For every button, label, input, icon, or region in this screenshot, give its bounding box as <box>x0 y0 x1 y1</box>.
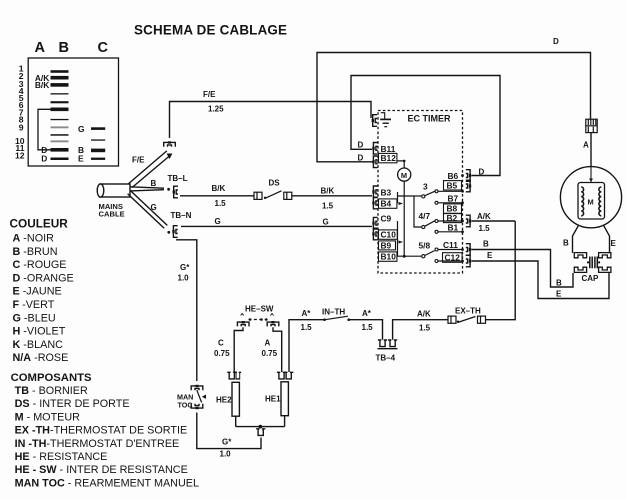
svg-text:N/A -ROSE: N/A -ROSE <box>13 352 69 364</box>
svg-text:1.5: 1.5 <box>301 323 313 332</box>
svg-text:G: G <box>151 203 157 212</box>
svg-text:B: B <box>556 278 562 287</box>
row numbers 1-12 <box>15 64 25 161</box>
svg-text:G*: G* <box>222 438 232 447</box>
svg-text:CAP: CAP <box>582 274 600 283</box>
svg-text:1.0: 1.0 <box>178 274 190 283</box>
svg-text:C12: C12 <box>445 253 461 263</box>
svg-text:A: A <box>265 339 271 348</box>
terminal B11 <box>372 143 377 155</box>
wire A/K from B2 <box>472 220 516 222</box>
svg-text:1.5: 1.5 <box>215 199 227 208</box>
EC timer box <box>378 111 463 274</box>
svg-text:M: M <box>588 198 594 207</box>
svg-text:3: 3 <box>423 182 428 192</box>
switch 5/8 <box>422 255 425 258</box>
mains cable body <box>100 184 130 197</box>
svg-text:B/K: B/K <box>35 80 49 90</box>
contact C11 <box>435 248 438 251</box>
capacitor connector right <box>599 253 611 273</box>
svg-text:TOC: TOC <box>178 400 193 409</box>
svg-text:B2: B2 <box>447 213 458 223</box>
wire B/K 1.5 left segment <box>180 195 254 197</box>
motor M <box>560 167 621 228</box>
svg-text:HE–SW: HE–SW <box>245 305 274 314</box>
svg-text:K -BLANC: K -BLANC <box>13 339 64 351</box>
svg-text:E: E <box>487 251 493 260</box>
svg-text:D: D <box>358 141 364 150</box>
capacitor connector left <box>574 253 586 273</box>
svg-text:B6: B6 <box>448 171 459 181</box>
svg-text:E: E <box>556 289 562 298</box>
svg-text:B/K: B/K <box>212 184 226 193</box>
wire B4 to switches <box>398 196 422 227</box>
svg-text:5/8: 5/8 <box>419 240 431 250</box>
svg-text:EX -TH-THERMOSTAT DE SORTIE: EX -TH-THERMOSTAT DE SORTIE <box>15 425 188 437</box>
wire D from B11 loop to B6 <box>351 76 500 176</box>
connector HE1 top (two prongs) <box>277 372 286 379</box>
svg-text:1.5: 1.5 <box>322 202 334 211</box>
terminal B5 <box>466 180 471 192</box>
svg-text:M: M <box>401 171 407 180</box>
svg-text:E: E <box>78 154 84 164</box>
svg-text:G: G <box>215 217 221 226</box>
svg-text:E -JAUNE: E -JAUNE <box>13 286 62 298</box>
svg-text:B4: B4 <box>381 199 392 209</box>
svg-text:B/K: B/K <box>321 187 335 196</box>
svg-text:SCHEMA DE CABLAGE: SCHEMA DE CABLAGE <box>134 23 287 38</box>
wire B/K 1.5 right segment <box>292 195 372 197</box>
wire timer motor down to B10 row <box>403 181 405 256</box>
motor winding left <box>581 187 583 216</box>
motor plug connector <box>586 119 597 132</box>
svg-text:1.25: 1.25 <box>208 105 224 114</box>
wire F/E double-line from mains <box>129 151 170 188</box>
svg-text:A -NOIR: A -NOIR <box>13 233 55 245</box>
svg-text:F/E: F/E <box>132 156 145 165</box>
node dot at TB-L <box>167 188 170 191</box>
svg-text:B: B <box>563 239 569 248</box>
connector HE2 top <box>227 372 236 379</box>
motor leg B <box>573 225 579 253</box>
svg-text:TB - BORNIER: TB - BORNIER <box>15 385 88 397</box>
svg-text:4/7: 4/7 <box>419 211 431 221</box>
svg-text:COMPOSANTS: COMPOSANTS <box>11 372 92 384</box>
svg-text:0.75: 0.75 <box>214 349 230 358</box>
svg-text:HE2: HE2 <box>216 396 232 405</box>
wire B from C11 to capacitor <box>472 250 574 288</box>
node dot at TB-N <box>167 231 170 234</box>
svg-text:DS: DS <box>269 179 281 188</box>
svg-text:D: D <box>358 154 364 163</box>
wire G* down from TB-N <box>176 240 197 381</box>
svg-text:A: A <box>583 141 589 150</box>
terminal B2 <box>466 215 471 227</box>
terminal C10 <box>372 228 377 240</box>
svg-text:HE - RESISTANCE: HE - RESISTANCE <box>15 451 108 463</box>
terminal B4 <box>372 197 377 209</box>
svg-text:A: A <box>35 40 46 56</box>
svg-text:A*: A* <box>362 309 372 318</box>
connector timer F/E input <box>372 115 377 127</box>
capacitor CAP plates <box>590 257 598 269</box>
bus bar C9-B10 <box>397 221 399 256</box>
svg-text:B: B <box>483 240 489 249</box>
svg-text:COULEUR: COULEUR <box>10 217 69 231</box>
svg-text:DS - INTER DE PORTE: DS - INTER DE PORTE <box>15 398 130 410</box>
resistor HE2 <box>235 416 237 426</box>
svg-text:G: G <box>323 218 329 227</box>
svg-text:C11: C11 <box>443 240 458 250</box>
wire C branch from HE-SW to HE2 <box>234 327 243 372</box>
bar labels A/K B/K D D <box>35 73 49 163</box>
wire plug to motor <box>590 133 592 167</box>
svg-text:B12: B12 <box>381 153 397 163</box>
wire F/E riser and 1.25 run <box>170 102 372 139</box>
wire HE bottom rail <box>236 426 285 428</box>
svg-text:TB–N: TB–N <box>171 211 192 220</box>
wire A branch from HE-SW to HE1 <box>273 327 282 372</box>
switch 3 <box>422 195 425 198</box>
svg-text:1.5: 1.5 <box>479 224 491 233</box>
connector F/E <box>164 141 176 146</box>
timer motor M <box>398 168 411 181</box>
svg-text:C: C <box>98 40 109 56</box>
bus bar B3-B4 <box>397 192 399 203</box>
wire A* riser from HE1 <box>289 320 324 372</box>
connector TB-L <box>173 186 178 198</box>
node junction HE1/HE2 <box>258 425 262 429</box>
svg-text:B3: B3 <box>381 187 392 197</box>
terminal B9 <box>379 241 396 250</box>
svg-text:EX–TH: EX–TH <box>455 307 481 316</box>
ground <box>380 113 391 127</box>
motor leg E <box>604 225 610 253</box>
contact B2 <box>435 220 438 223</box>
connector TB-N <box>172 226 177 238</box>
svg-text:EC TIMER: EC TIMER <box>408 114 452 124</box>
wire EX-TH up to B2 (A/K net) <box>486 221 515 320</box>
svg-text:B: B <box>151 179 157 188</box>
svg-text:B5: B5 <box>447 180 458 190</box>
terminal B8 <box>444 204 462 213</box>
wire D from B12 loop to motor plug <box>317 53 591 162</box>
svg-text:9: 9 <box>19 122 24 132</box>
svg-text:HE - SW - INTER DE RESISTANCE: HE - SW - INTER DE RESISTANCE <box>15 464 188 476</box>
wire G run to timer <box>181 225 372 227</box>
connector below HE junction <box>256 429 265 436</box>
wire B12 to timer motor <box>397 161 404 168</box>
terminal block TB-4 <box>378 340 387 347</box>
svg-text:A/K: A/K <box>417 310 431 319</box>
svg-text:F/E: F/E <box>203 90 216 99</box>
terminal B3 <box>372 186 377 198</box>
svg-text:A/K: A/K <box>477 212 491 221</box>
contact B5 <box>435 190 438 193</box>
contact B1 <box>435 230 438 233</box>
svg-text:B1: B1 <box>448 223 459 233</box>
svg-text:G: G <box>78 124 85 134</box>
svg-text:CABLE: CABLE <box>99 209 125 218</box>
svg-text:E: E <box>611 239 617 248</box>
svg-text:C: C <box>218 339 224 348</box>
svg-text:1.5: 1.5 <box>362 323 374 332</box>
svg-text:MAN TOC - REARMEMENT MANUEL: MAN TOC - REARMEMENT MANUEL <box>15 477 199 489</box>
terminal C9 <box>372 217 377 229</box>
terminal B12 <box>372 156 377 168</box>
svg-text:IN -TH-THERMOSTAT D'ENTREE: IN -TH-THERMOSTAT D'ENTREE <box>15 438 180 450</box>
column B wire-gauge bars <box>51 70 69 160</box>
svg-text:HE1: HE1 <box>265 395 281 404</box>
svg-text:TB–4: TB–4 <box>376 354 396 363</box>
contact B7 <box>435 201 438 204</box>
svg-text:D -ORANGE: D -ORANGE <box>13 272 74 284</box>
svg-text:1.0: 1.0 <box>220 450 232 459</box>
wire G* 1.0 bottom run <box>197 413 261 449</box>
wire A* 1.5 to TB-4 <box>349 320 383 340</box>
svg-text:C -ROUGE: C -ROUGE <box>13 259 67 271</box>
wire B double-line from mains <box>130 187 164 191</box>
svg-text:12: 12 <box>15 151 25 161</box>
door switch DS <box>254 192 262 199</box>
svg-text:IN–TH: IN–TH <box>322 308 345 317</box>
motor winding right <box>599 187 601 216</box>
svg-text:B -BRUN: B -BRUN <box>13 246 58 258</box>
switch 4/7 <box>422 225 425 228</box>
svg-text:M - MOTEUR: M - MOTEUR <box>15 411 81 423</box>
wire A/K 1.5 from TB-4 <box>393 320 448 340</box>
F/E arrowhead node <box>167 154 173 160</box>
svg-text:H -VIOLET: H -VIOLET <box>13 326 66 338</box>
svg-text:TB–L: TB–L <box>168 174 188 183</box>
terminal B10 <box>379 252 397 261</box>
column C bars <box>91 127 105 160</box>
wire E from C12 to capacitor <box>472 261 610 299</box>
svg-text:B7: B7 <box>448 193 459 203</box>
terminal C12 <box>466 255 471 267</box>
connection table box <box>28 58 118 166</box>
wire B10 to switch 5/8 <box>397 255 422 257</box>
svg-text:G -BLEU: G -BLEU <box>13 312 56 324</box>
svg-text:C10: C10 <box>381 230 397 240</box>
contact C12 <box>435 260 438 263</box>
svg-text:D: D <box>479 168 485 177</box>
svg-text:D: D <box>41 153 47 163</box>
terminal C11 <box>466 244 471 256</box>
resistor HE1 <box>284 416 286 427</box>
wire G double-line from mains <box>128 191 168 228</box>
svg-text:B9: B9 <box>381 240 392 250</box>
svg-text:F -VERT: F -VERT <box>13 299 55 311</box>
svg-text:C9: C9 <box>381 213 392 223</box>
bracket row6 to row11 <box>38 109 51 150</box>
svg-text:0.75: 0.75 <box>262 349 278 358</box>
svg-text:B: B <box>59 40 69 56</box>
svg-text:B10: B10 <box>381 252 397 262</box>
svg-text:D: D <box>553 37 559 46</box>
column C labels G B E <box>78 124 85 164</box>
svg-text:G*: G* <box>180 263 190 272</box>
svg-text:A*: A* <box>302 309 312 318</box>
svg-text:1.5: 1.5 <box>419 324 431 333</box>
terminal B6 <box>466 170 471 182</box>
